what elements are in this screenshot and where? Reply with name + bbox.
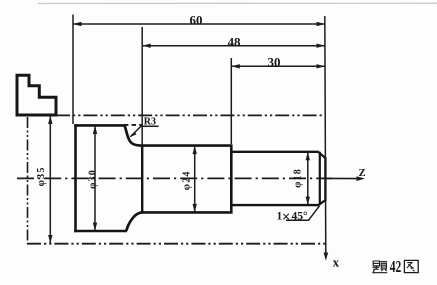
phi18 top edge (231, 151, 318, 153)
svg-text:42: 42 (390, 257, 402, 276)
phi24 bottom edge (142, 211, 233, 214)
part outline: flange bottom edge (74, 230, 127, 233)
Z axis (326, 177, 362, 179)
svg-text:φ30: φ30 (88, 169, 99, 189)
part outline: flange left face (74, 124, 77, 232)
phantom blank left end line (27, 117, 29, 244)
svg-text:φ24: φ24 (182, 170, 193, 190)
step face phi24/phi18 (230, 145, 233, 214)
chamfer leader line (286, 206, 320, 221)
fillet R3 top (125, 126, 142, 146)
scan artifact top line (38, 2, 437, 4)
dashed corner line near R3 (124, 124, 143, 126)
phi30 dimension line (94, 126, 96, 231)
caption glyph tu (404, 260, 418, 272)
svg-text:60: 60 (190, 13, 203, 28)
phi24 top edge (142, 144, 233, 147)
dimension line 48 (142, 45, 325, 47)
part outline: flange top edge (74, 124, 125, 127)
extension line 48 left (141, 27, 143, 145)
extension line 30 left (230, 58, 232, 144)
fillet bottom (126, 212, 142, 230)
svg-text:48: 48 (228, 35, 242, 50)
svg-text:30: 30 (268, 55, 281, 70)
phi18 bottom edge (231, 204, 318, 206)
x axis arrow (324, 253, 329, 261)
end face (324, 157, 326, 201)
phantom blank bottom line (27, 243, 328, 245)
phi35 dimension line (49, 116, 51, 243)
chuck jaw symbol (17, 75, 56, 115)
svg-text:Z: Z (359, 168, 366, 179)
svg-text:×: × (282, 209, 290, 225)
phi24 dimension line (194, 146, 196, 212)
dimension line 30 (231, 65, 325, 67)
centerline (17, 177, 332, 179)
extension line right / x axis line (325, 16, 326, 259)
svg-text:φ35: φ35 (36, 166, 47, 186)
phantom blank top line (56, 114, 325, 116)
svg-text:R3: R3 (144, 116, 156, 127)
caption text "ti 42 tu" (373, 257, 419, 276)
svg-text:φ18: φ18 (292, 168, 303, 188)
phi18 dimension line (307, 152, 309, 205)
chamfer top slope (318, 152, 325, 158)
caption glyph ti (373, 261, 388, 273)
dimension line 60 (73, 23, 325, 25)
svg-text:45°: 45° (292, 211, 309, 223)
extension line 60 left (72, 15, 74, 125)
flange right face edge (141, 146, 143, 213)
chamfer bottom slope (318, 200, 325, 205)
svg-text:x: x (333, 255, 340, 270)
R3 leader line (131, 126, 159, 136)
chamfer edge circle line (319, 152, 321, 205)
